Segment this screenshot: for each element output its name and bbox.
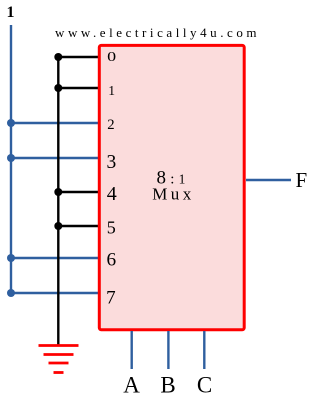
wire: input 0 (black, from ground bus to mux pin 0) (58, 56, 98, 58)
wire: select line C (203, 331, 205, 369)
junction: bus to input 7 (7, 289, 15, 297)
junction: ground bus to input 5 (54, 222, 62, 230)
junction: ground bus to input 4 (54, 188, 62, 196)
svg-text:4: 4 (107, 183, 117, 205)
svg-text:7: 7 (106, 287, 116, 308)
wire: input 2 (blue, from bus to mux pin 2) (11, 122, 98, 124)
svg-text:2: 2 (107, 117, 114, 133)
junction: bus to input 3 (7, 154, 15, 162)
wire: input 3 (blue, from bus to mux pin 3) (11, 157, 98, 159)
svg-text:3: 3 (107, 152, 117, 173)
wire: input 1 (black, from ground bus to mux pin 1) (58, 87, 98, 89)
wire: select line B (167, 331, 169, 369)
svg-text:6: 6 (106, 249, 116, 270)
svg-text:A: A (123, 373, 140, 398)
wire: input 4 (black, from ground bus to mux pin 4) (58, 191, 98, 193)
svg-text:0: 0 (107, 49, 116, 64)
junction: ground bus to input 0 (54, 53, 62, 61)
svg-text:www.electrically4u.com: www.electrically4u.com (55, 25, 260, 40)
junction: bus to input 6 (7, 254, 15, 262)
junction: bus to input 2 (7, 119, 15, 127)
wire: blue logic-1 vertical bus (10, 25, 12, 293)
svg-text:1: 1 (108, 83, 115, 98)
value label 8:1 Mux (152, 168, 195, 204)
svg-text:B: B (160, 373, 175, 398)
wire: output F (246, 179, 291, 181)
svg-text:F: F (296, 168, 308, 192)
wire: input 6 (blue, from bus to mux pin 6) (11, 257, 98, 259)
wire: input 5 (black, from ground bus to mux pin 5) (58, 225, 98, 227)
multiplexer U1 (8:1 Mux body) (99, 45, 244, 329)
svg-text:C: C (197, 373, 212, 398)
wire: select line A (130, 331, 132, 369)
wire: input 7 (blue, from bus to mux pin 7) (11, 292, 98, 294)
svg-text:1: 1 (7, 4, 15, 21)
junction: ground bus to input 1 (54, 84, 62, 92)
ground symbol (39, 346, 79, 373)
svg-text:Mux: Mux (152, 185, 195, 204)
svg-text:5: 5 (107, 218, 116, 238)
wire: black ground vertical bus (57, 57, 59, 345)
